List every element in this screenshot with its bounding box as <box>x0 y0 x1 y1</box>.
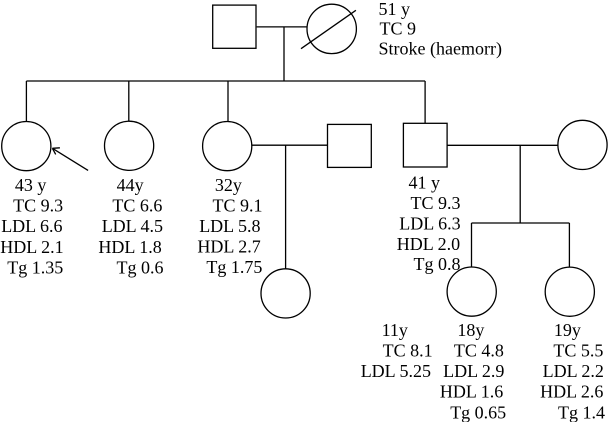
wire: descent drop to 11y circle <box>285 145 287 269</box>
wire: sibship line 18y-19y <box>472 222 570 224</box>
svg-text:TC 9.3: TC 9.3 <box>13 196 63 216</box>
wire: drop to 19y circle <box>568 223 570 267</box>
svg-text:TC 6.6: TC 6.6 <box>112 196 162 216</box>
svg-text:HDL 2.6: HDL 2.6 <box>540 382 603 402</box>
svg-text:Stroke (haemorr): Stroke (haemorr) <box>379 38 502 59</box>
wire: couple line 41y-wife <box>447 144 558 146</box>
svg-text:LDL 2.2: LDL 2.2 <box>543 361 604 381</box>
svg-text:Tg 1.75: Tg 1.75 <box>206 257 262 277</box>
square: husband of 32y <box>328 124 372 167</box>
svg-text:43 y: 43 y <box>15 175 47 195</box>
svg-text:HDL 1.6: HDL 1.6 <box>440 382 503 402</box>
svg-text:Tg 1.35: Tg 1.35 <box>7 257 63 277</box>
circle: daughter 44y <box>105 121 154 170</box>
wire: couple line grandfather-grandmother <box>257 26 307 28</box>
svg-text:41 y: 41 y <box>409 173 441 193</box>
slash: deceased mark over grandmother <box>301 10 356 48</box>
svg-text:19y: 19y <box>554 320 581 340</box>
svg-text:44y: 44y <box>117 175 144 195</box>
wire: drop to 18y circle <box>471 223 473 267</box>
circle: daughter 32y <box>203 122 252 171</box>
svg-text:TC 8.1: TC 8.1 <box>383 341 433 361</box>
svg-text:LDL 6.3: LDL 6.3 <box>399 213 460 233</box>
wire: descent drop from 41y couple <box>519 145 521 223</box>
svg-text:11y: 11y <box>382 320 408 340</box>
svg-text:Tg 0.6: Tg 0.6 <box>117 257 164 277</box>
wire: drop to 43y circle <box>25 81 27 122</box>
svg-text:TC 5.5: TC 5.5 <box>553 341 603 361</box>
wire: descent drop from couple line <box>283 27 285 81</box>
square: son 41y <box>403 123 447 167</box>
square: grandfather (gen I male) <box>213 5 256 48</box>
circle: daughter 43y (proband) <box>2 122 51 171</box>
wire: couple line 32y-husband <box>252 144 328 146</box>
svg-text:LDL 2.9: LDL 2.9 <box>443 361 504 381</box>
svg-text:HDL 2.7: HDL 2.7 <box>197 237 260 257</box>
circle: wife of 41y <box>558 120 607 169</box>
circle: granddaughter 18y <box>447 267 496 316</box>
wire: drop to 32y circle <box>227 81 229 122</box>
svg-text:Tg 0.65: Tg 0.65 <box>450 402 506 422</box>
svg-text:HDL 1.8: HDL 1.8 <box>98 237 161 257</box>
svg-text:Tg 0.8: Tg 0.8 <box>414 254 461 274</box>
wire: drop to 41y square <box>424 81 426 123</box>
circle: granddaughter 19y <box>545 267 594 316</box>
svg-text:18y: 18y <box>457 320 484 340</box>
arrow: proband indicator pointing to 43y circle <box>52 148 88 171</box>
svg-text:HDL 2.0: HDL 2.0 <box>397 234 460 254</box>
svg-text:HDL 2.1: HDL 2.1 <box>0 237 63 257</box>
svg-text:Tg 1.4: Tg 1.4 <box>558 402 605 422</box>
svg-text:TC 9.3: TC 9.3 <box>411 193 461 213</box>
svg-text:TC 4.8: TC 4.8 <box>454 341 504 361</box>
circle: granddaughter 11y <box>261 269 310 318</box>
wire: drop to 44y circle <box>128 81 130 122</box>
svg-text:TC 9.1: TC 9.1 <box>213 196 263 216</box>
wire: sibship line generation II <box>26 80 425 82</box>
svg-text:LDL 5.8: LDL 5.8 <box>199 216 260 236</box>
svg-text:LDL 6.6: LDL 6.6 <box>1 216 62 236</box>
svg-text:LDL 4.5: LDL 4.5 <box>102 216 163 236</box>
svg-text:51 y: 51 y <box>379 0 411 19</box>
svg-text:TC 9: TC 9 <box>380 19 417 39</box>
svg-text:32y: 32y <box>215 175 242 195</box>
svg-text:LDL 5.25: LDL 5.25 <box>361 361 431 381</box>
circle: grandmother (gen I female, deceased) <box>307 4 356 53</box>
